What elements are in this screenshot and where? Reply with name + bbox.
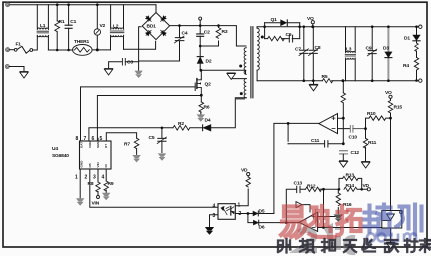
svg-text:R11: R11	[368, 140, 377, 146]
svg-text:R15: R15	[394, 105, 403, 111]
svg-text:L3: L3	[346, 47, 352, 53]
svg-text:D1: D1	[404, 36, 410, 42]
svg-text:R6: R6	[204, 105, 210, 111]
svg-text:R1: R1	[59, 19, 65, 25]
svg-text:C1: C1	[70, 19, 76, 25]
svg-text:C13: C13	[294, 181, 303, 187]
svg-text:Q2: Q2	[205, 82, 212, 88]
svg-text:D2: D2	[206, 59, 212, 65]
svg-text:R4: R4	[403, 63, 409, 69]
svg-text:RT: RT	[104, 144, 108, 148]
svg-text:V2: V2	[100, 23, 106, 29]
svg-text:D3: D3	[383, 46, 389, 52]
svg-text:Q1: Q1	[271, 17, 278, 23]
svg-text:VD: VD	[363, 183, 370, 189]
svg-text:R3: R3	[222, 29, 228, 35]
svg-text:R9: R9	[108, 181, 114, 187]
svg-text:C11: C11	[311, 138, 320, 144]
svg-text:C2: C2	[204, 30, 210, 36]
svg-text:4: 4	[213, 204, 216, 210]
svg-text:C3: C3	[127, 60, 133, 66]
svg-text:D4: D4	[205, 118, 211, 124]
svg-text:R13: R13	[346, 173, 355, 179]
svg-text:GND: GND	[80, 160, 84, 168]
svg-text:3: 3	[93, 175, 96, 181]
svg-text:R14: R14	[346, 183, 355, 189]
svg-text:C7: C7	[295, 47, 301, 53]
svg-text:C9: C9	[366, 46, 372, 52]
svg-text:D6: D6	[259, 225, 265, 231]
svg-text:VDD: VDD	[88, 141, 92, 148]
svg-text:VO: VO	[385, 90, 392, 96]
svg-text:RI: RI	[104, 164, 108, 167]
svg-text:R7: R7	[124, 142, 130, 148]
svg-text:C6: C6	[286, 32, 292, 38]
svg-text:FB: FB	[88, 163, 92, 168]
svg-text:SENSE: SENSE	[96, 138, 100, 149]
svg-text:THER1: THER1	[74, 39, 90, 45]
svg-text:R12: R12	[307, 184, 316, 190]
svg-text:C4: C4	[182, 31, 188, 37]
svg-text:4: 4	[102, 175, 105, 181]
svg-text:L1: L1	[40, 23, 46, 29]
svg-text:C8: C8	[315, 45, 321, 51]
svg-text:2: 2	[85, 175, 88, 181]
svg-text:1: 1	[75, 175, 78, 181]
svg-text:L2: L2	[113, 24, 119, 30]
svg-text:U4: U4	[52, 146, 58, 152]
svg-text:VIN: VIN	[92, 201, 100, 207]
svg-text:C12: C12	[351, 150, 360, 156]
svg-text:C5: C5	[149, 135, 155, 141]
svg-text:GATE: GATE	[80, 140, 84, 148]
svg-text:3: 3	[213, 213, 216, 219]
svg-text:2: 2	[239, 211, 242, 217]
svg-text:SG6840: SG6840	[52, 153, 69, 159]
svg-text:VIN: VIN	[96, 162, 100, 168]
svg-text:R10: R10	[367, 111, 376, 117]
svg-text:8: 8	[76, 136, 79, 142]
svg-text:R5: R5	[322, 74, 328, 80]
svg-text:R8: R8	[88, 181, 94, 187]
svg-text:C10: C10	[349, 135, 358, 141]
svg-text:7: 7	[84, 136, 87, 142]
svg-text:6: 6	[92, 136, 95, 142]
svg-text:R2: R2	[178, 121, 184, 127]
svg-text:VO: VO	[307, 16, 314, 22]
svg-text:F1: F1	[16, 42, 22, 48]
svg-text:D5: D5	[259, 209, 265, 215]
svg-text:1: 1	[238, 203, 241, 209]
svg-text:VD: VD	[241, 168, 248, 174]
svg-text:BD1: BD1	[147, 24, 157, 30]
svg-text:R16: R16	[343, 202, 352, 208]
